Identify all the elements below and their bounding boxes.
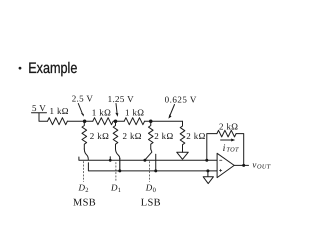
arrow 0.625V	[170, 105, 175, 116]
resistor 2k feedback	[217, 130, 236, 137]
arrow 2.5V	[78, 104, 82, 114]
5V source terminal	[32, 113, 48, 122]
dashed line D1	[115, 163, 117, 182]
junction D0 top	[143, 159, 146, 162]
resistor R3 1k horizontal	[124, 118, 144, 125]
svg-text:2 kΩ: 2 kΩ	[154, 131, 173, 141]
junction ground on bottom bus	[206, 169, 209, 172]
wire rail node1	[67, 120, 92, 122]
node C dot 0.625V	[149, 119, 153, 123]
svg-text:1 kΩ: 1 kΩ	[125, 108, 144, 118]
svg-text:i: i	[223, 143, 226, 154]
svg-text:1 kΩ: 1 kΩ	[50, 106, 69, 116]
resistor R2 1k horizontal	[93, 118, 113, 125]
svg-text:2: 2	[85, 187, 89, 194]
switch blade D1	[116, 149, 120, 159]
switch blade D2	[84, 149, 88, 160]
op-amp minus mark	[220, 159, 222, 161]
feedback loop left leg	[207, 134, 217, 161]
junction feedback on top bus	[205, 159, 208, 162]
switch blade D0	[145, 149, 152, 160]
resistor 2k vertical V4 termination	[180, 126, 185, 152]
dashed line D2	[83, 162, 85, 182]
svg-text:1.25 V: 1.25 V	[108, 94, 135, 104]
feedback loop right leg	[236, 134, 244, 166]
svg-text:2 kΩ: 2 kΩ	[186, 131, 205, 141]
dashed line D0	[149, 162, 151, 182]
node A dot 2.5V	[83, 119, 87, 123]
resistor 2k vertical V3	[148, 121, 153, 149]
arrow iTOT	[221, 139, 233, 141]
svg-text:1: 1	[118, 187, 122, 194]
output junction dot	[242, 164, 245, 167]
resistor 2k vertical V1	[82, 121, 87, 149]
arrow 1.25V	[116, 104, 117, 114]
contact D1 top	[109, 157, 111, 161]
bullet	[19, 67, 22, 70]
ground termination	[177, 152, 189, 159]
op-amp U1	[217, 153, 234, 177]
op-amp plus mark	[220, 169, 222, 171]
svg-text:5 V: 5 V	[32, 103, 46, 113]
svg-text:TOT: TOT	[226, 147, 239, 154]
svg-text:1 kΩ: 1 kΩ	[92, 108, 111, 118]
ground op-amp	[203, 171, 213, 184]
contact D0 bottom	[155, 154, 157, 171]
svg-text:0: 0	[153, 187, 157, 194]
svg-text:D: D	[145, 183, 153, 193]
bottom bus ground line	[88, 163, 217, 171]
svg-text:MSB: MSB	[73, 198, 96, 209]
svg-text:D: D	[78, 183, 86, 193]
junction D1 bottom	[118, 169, 121, 172]
svg-text:0.625 V: 0.625 V	[165, 95, 197, 105]
top bus summing line	[79, 157, 217, 160]
wire termination corner down	[182, 121, 184, 126]
output wire	[234, 164, 248, 166]
wire rail node2	[114, 120, 125, 122]
node B dot 1.25V	[114, 119, 118, 123]
svg-text:2.5 V: 2.5 V	[72, 94, 94, 104]
svg-text:Example: Example	[28, 60, 77, 77]
resistor 2k vertical V2	[113, 121, 118, 149]
svg-text:OUT: OUT	[257, 164, 271, 171]
resistor R1 1k horizontal	[48, 118, 68, 125]
wire rail to termination corner	[145, 120, 183, 122]
svg-text:2 kΩ: 2 kΩ	[123, 131, 142, 141]
svg-text:2 kΩ: 2 kΩ	[90, 131, 109, 141]
svg-text:LSB: LSB	[141, 198, 161, 209]
svg-text:2 kΩ: 2 kΩ	[219, 121, 238, 131]
svg-text:D: D	[110, 183, 118, 193]
